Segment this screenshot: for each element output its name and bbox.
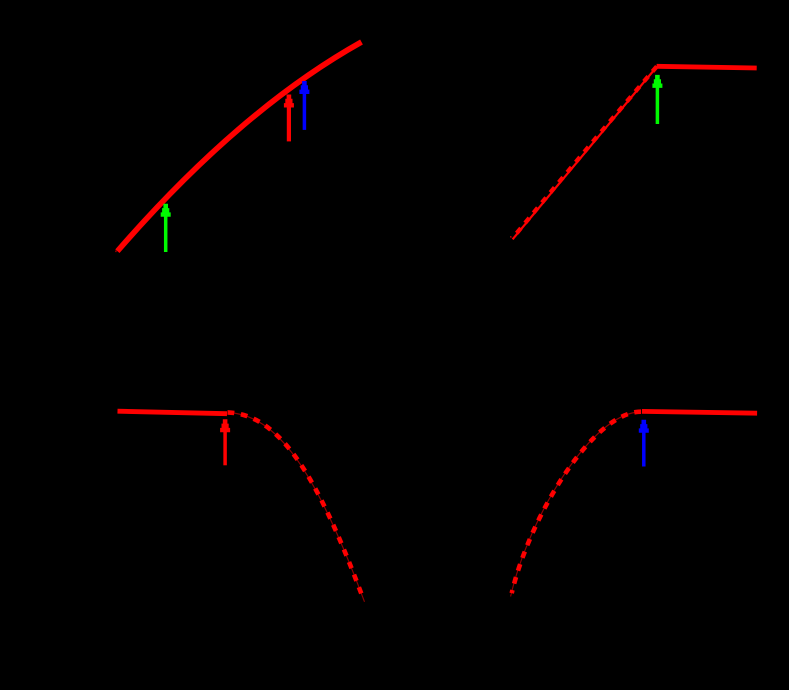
arrow green TL <box>161 204 171 252</box>
line TR plateau: thick solid red horizontal <box>657 66 757 68</box>
arrow green TR <box>652 75 662 124</box>
arrow red BL <box>220 419 230 465</box>
dot TL: stray endpoint dot left of curve start <box>115 251 116 253</box>
arrow blue TL <box>299 81 309 130</box>
curve BR dashed: thick dashed red rising curve <box>512 412 641 594</box>
curve BR thin: faint thin line under dashes (panel d) <box>511 412 641 597</box>
curve TR dashed: thick dashed red diagonal slightly bowed <box>512 66 656 238</box>
arrow red TL <box>284 95 294 142</box>
line TR thin: solid thin red diagonal (panel b) <box>513 67 657 240</box>
line BL plateau: thick solid red horizontal (panel c) <box>118 411 228 414</box>
line BR plateau: thick solid red horizontal <box>642 411 757 413</box>
arrow blue BR <box>639 420 649 467</box>
dot TR: stray dot at diagonal base <box>510 236 512 238</box>
curve BL dashed: thick dashed red falling curve <box>228 412 364 599</box>
curve BL thin: faint thin line under dashes <box>228 413 365 602</box>
curve TL: thick solid red concave curve (panel a) <box>117 42 361 251</box>
